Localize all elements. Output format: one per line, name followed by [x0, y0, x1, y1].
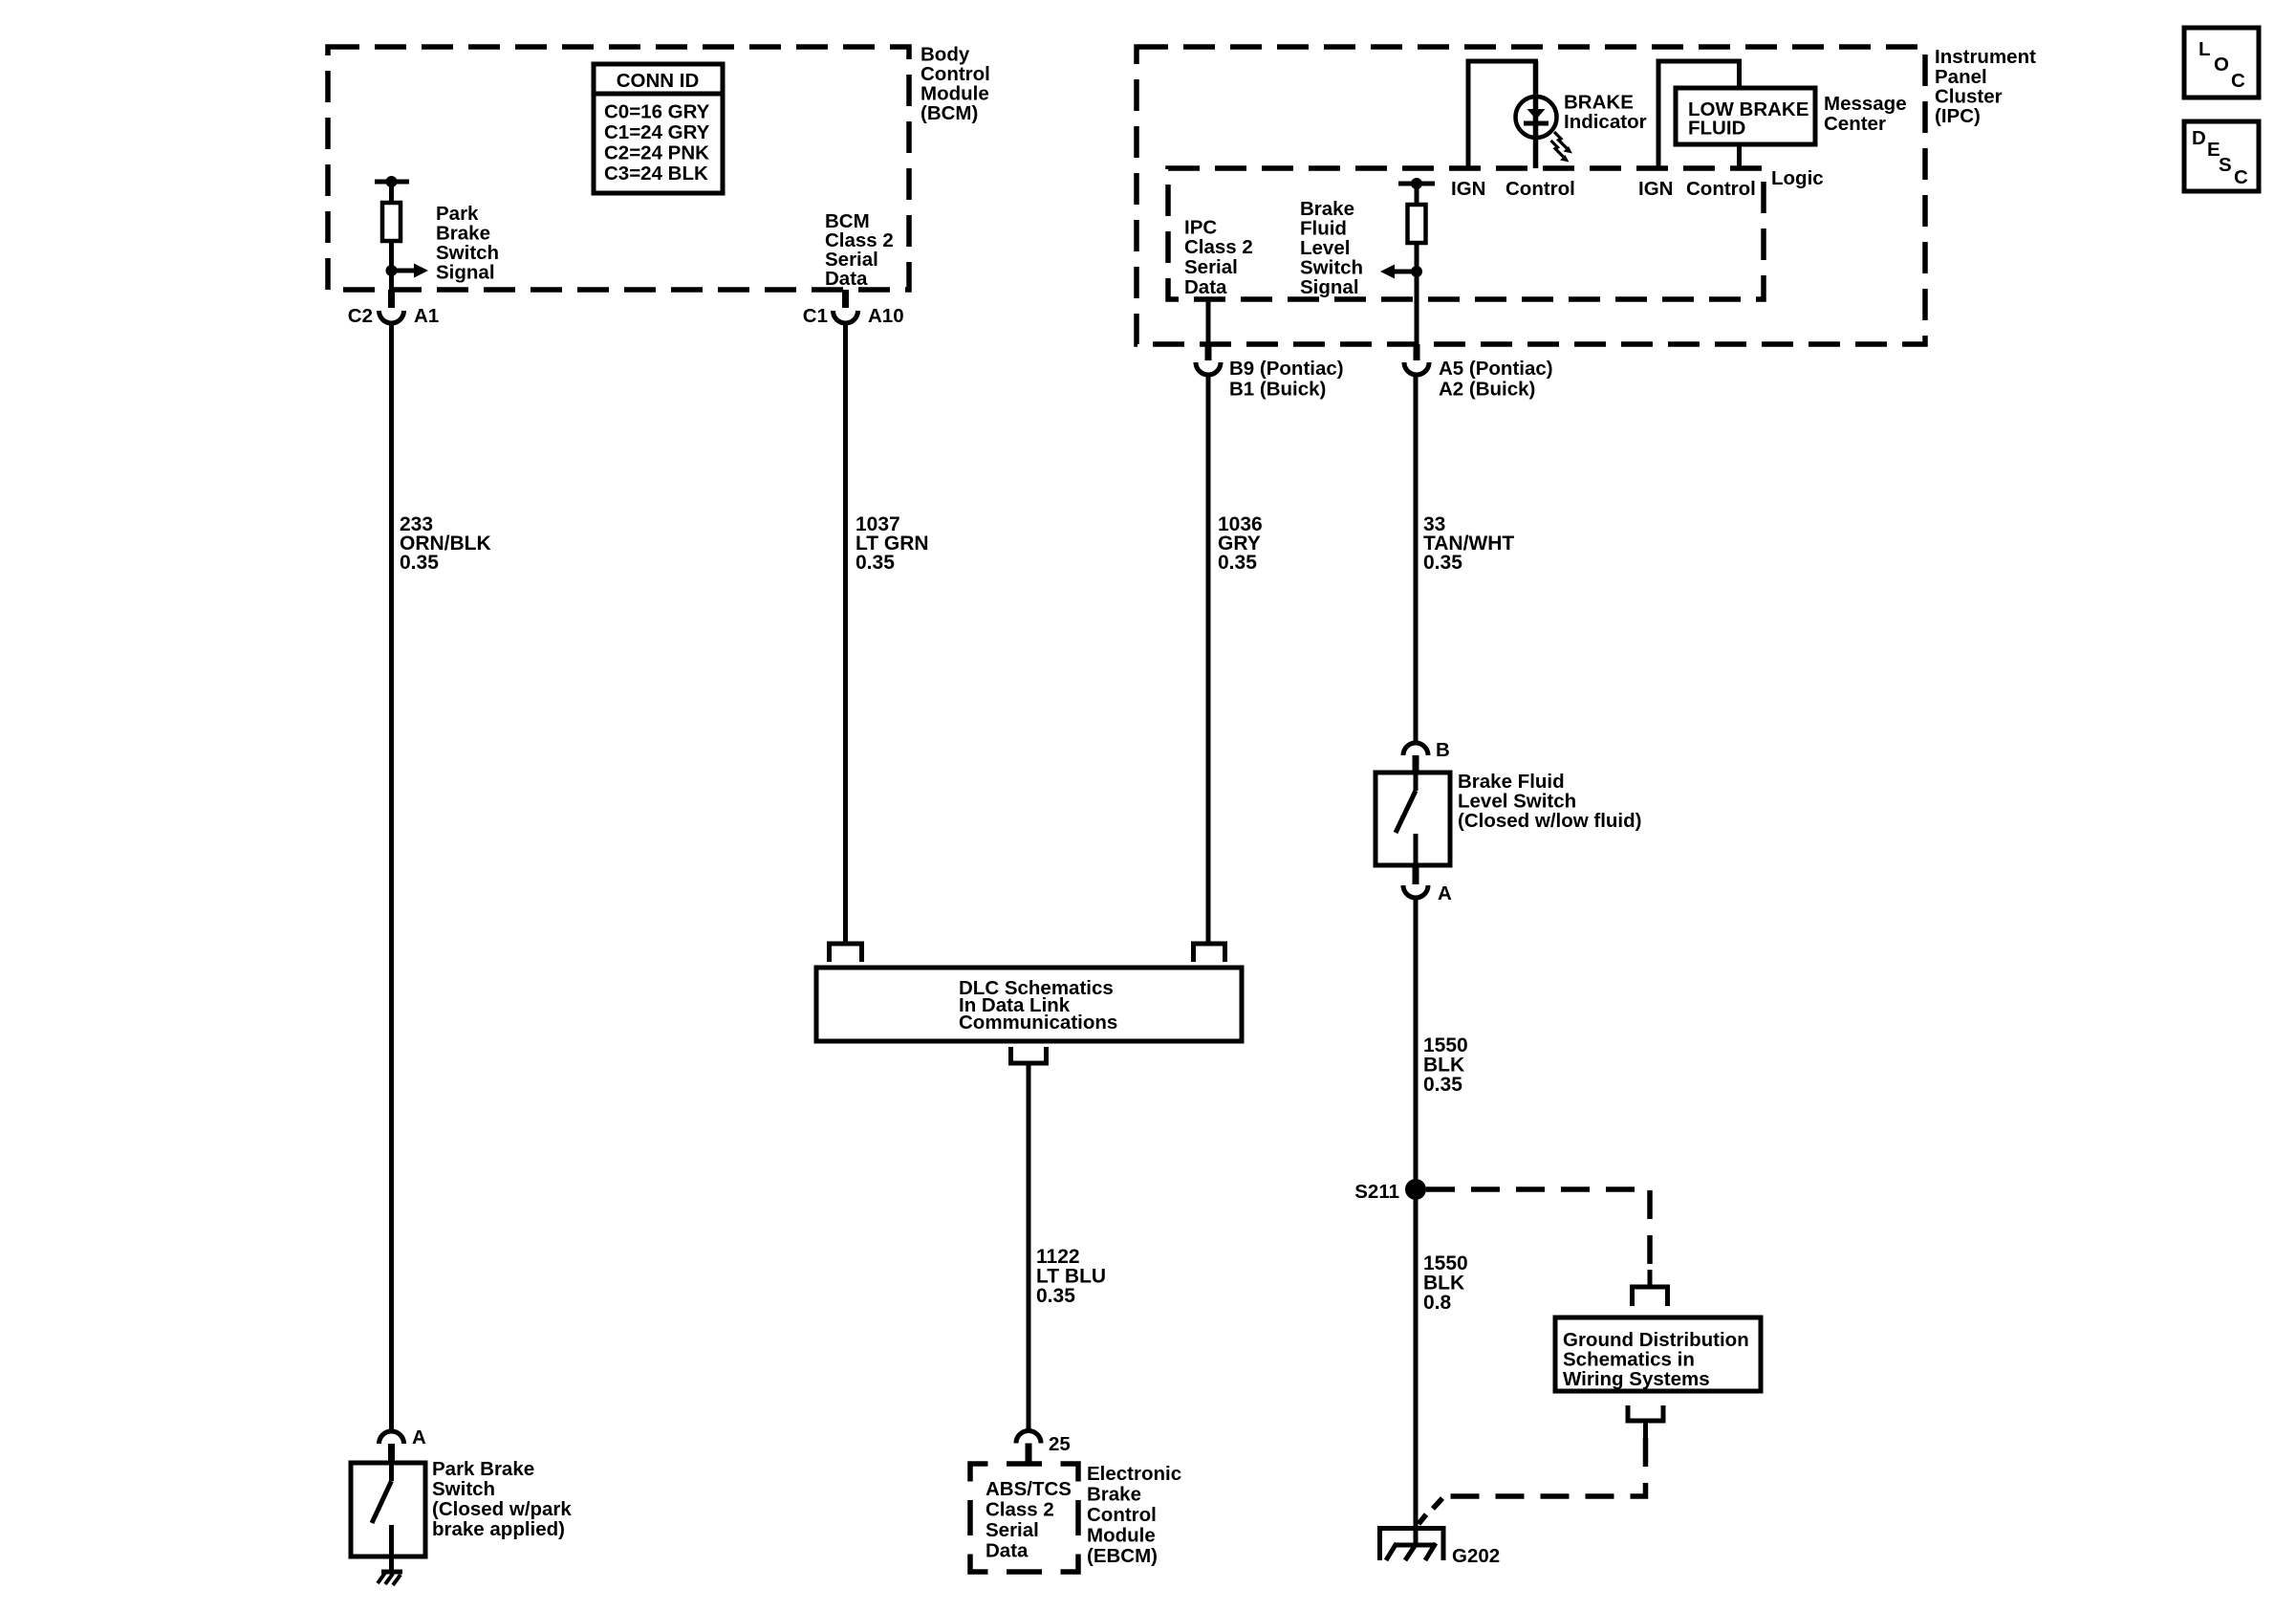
svg-text:0.35: 0.35 [856, 552, 895, 574]
park brake switch S1 box [351, 1463, 425, 1557]
svg-text:S211: S211 [1354, 1181, 1399, 1203]
svg-text:A2 (Buick): A2 (Buick) [1439, 379, 1535, 401]
svg-text:(Closed w/low fluid): (Closed w/low fluid) [1458, 810, 1641, 832]
wire IGN riser (BRAKE indicator) [1466, 61, 1471, 168]
svg-text:C: C [2231, 70, 2245, 92]
svg-text:Control: Control [1686, 178, 1756, 200]
IPC logic dashed box [1168, 168, 1764, 299]
svg-text:C3=24 BLK: C3=24 BLK [604, 163, 708, 185]
svg-text:Indicator: Indicator [1564, 111, 1647, 133]
svg-text:Signal: Signal [436, 262, 495, 284]
svg-text:C1=24 GRY: C1=24 GRY [604, 121, 710, 143]
svg-text:Class 2: Class 2 [986, 1499, 1054, 1521]
wire top bar (BRAKE indicator loop) [1466, 59, 1539, 64]
LED emission arrows [1551, 132, 1573, 163]
label Brake Fluid Level Switch (Closed w/low fluid) [1458, 771, 1641, 832]
wire control drop (BRAKE indicator) [1533, 61, 1539, 168]
connector A (park brake switch) [379, 1426, 427, 1463]
svg-text:ABS/TCS: ABS/TCS [986, 1478, 1072, 1500]
wire 1550 BLK 0.35 [1414, 898, 1419, 1545]
LOC reference box [2184, 28, 2259, 98]
wire drop to LOW BRAKE FLUID box [1737, 61, 1742, 88]
svg-text:Logic: Logic [1771, 167, 1824, 189]
svg-text:Communications: Communications [959, 1012, 1117, 1034]
resistor R (IPC pull-up) [1408, 205, 1426, 243]
arrow brake fluid level switch signal [1380, 265, 1417, 279]
svg-text:C0=16 GRY: C0=16 GRY [604, 101, 710, 123]
LOW BRAKE FLUID message box [1676, 88, 1815, 144]
connector bump bottom (DLC box) [1008, 1047, 1049, 1063]
wire supply bar to resistor [389, 182, 394, 203]
svg-text:Data: Data [1184, 276, 1227, 298]
svg-text:B9 (Pontiac): B9 (Pontiac) [1229, 358, 1344, 380]
label 33 TAN/WHT 0.35 [1423, 513, 1514, 574]
svg-text:Serial: Serial [986, 1519, 1039, 1541]
node junction park brake signal [386, 265, 398, 276]
wire 1037 LT GRN [843, 323, 848, 944]
svg-text:A5 (Pontiac): A5 (Pontiac) [1439, 358, 1553, 380]
svg-text:25: 25 [1049, 1433, 1071, 1455]
label Brake Fluid Level Switch Signal [1300, 198, 1363, 298]
wire IPC B9 to DLC [1206, 375, 1211, 944]
wire 233 ORN/BLK [389, 323, 394, 1431]
brake fluid level switch box [1375, 773, 1450, 865]
svg-text:B1 (Buick): B1 (Buick) [1229, 379, 1326, 401]
connector C2 / A1 [348, 290, 439, 327]
svg-text:Data: Data [825, 268, 868, 290]
svg-text:CONN ID: CONN ID [617, 70, 700, 92]
svg-text:Control: Control [1505, 178, 1575, 200]
svg-text:B: B [1436, 739, 1450, 761]
svg-text:brake applied): brake applied) [432, 1518, 565, 1540]
dashed branch wire S211 to ground distribution [1426, 1189, 1650, 1272]
svg-text:0.35: 0.35 [1036, 1285, 1075, 1307]
svg-text:Wiring Systems: Wiring Systems [1563, 1368, 1710, 1390]
svg-text:Park Brake: Park Brake [432, 1458, 534, 1480]
svg-text:FLUID: FLUID [1688, 118, 1745, 140]
IPC module dashed box [1137, 47, 1925, 344]
wire top bar (message center loop) [1657, 59, 1743, 64]
svg-text:Electronic: Electronic [1087, 1463, 1181, 1485]
svg-text:C2: C2 [348, 305, 373, 327]
wire 33 TAN/WHT [1414, 375, 1419, 742]
connector 25 (EBCM) [1016, 1431, 1071, 1465]
label IPC Class 2 Serial Data [1184, 217, 1253, 299]
connector bump right (DLC box top) [1191, 944, 1227, 962]
svg-text:C: C [2234, 166, 2248, 188]
connector B9/B1 (IPC serial data) [1196, 344, 1344, 401]
Ground Distribution box [1555, 1317, 1761, 1391]
svg-text:Signal: Signal [1300, 276, 1359, 298]
svg-text:(Closed w/park: (Closed w/park [432, 1498, 572, 1520]
svg-text:Instrument: Instrument [1935, 46, 2036, 68]
connector bump bottom (ground distribution) [1626, 1405, 1666, 1438]
ground G202 [1377, 1526, 1500, 1567]
ABS/TCS dashed box (EBCM) [970, 1464, 1078, 1572]
svg-text:IGN: IGN [1638, 178, 1673, 200]
svg-text:C2=24 PNK: C2=24 PNK [604, 142, 709, 164]
label BRAKE Indicator [1564, 92, 1647, 134]
svg-text:L: L [2199, 38, 2211, 60]
CONN ID table [594, 64, 723, 193]
svg-text:Data: Data [986, 1540, 1029, 1562]
label Electronic Brake Control Module (EBCM) [1087, 1463, 1181, 1567]
label 1037 LT GRN 0.35 [856, 513, 929, 574]
svg-text:0.8: 0.8 [1423, 1292, 1452, 1314]
node: park brake pull-up supply bar [375, 176, 409, 187]
svg-text:Class 2: Class 2 [1184, 236, 1253, 258]
label Body Control Module (BCM) [921, 44, 990, 125]
svg-text:Message: Message [1824, 93, 1907, 115]
svg-text:0.35: 0.35 [1423, 552, 1462, 574]
connector A5/A2 (brake fluid signal) [1404, 344, 1553, 401]
svg-text:A10: A10 [868, 305, 904, 327]
svg-text:(IPC): (IPC) [1935, 105, 1981, 127]
wire control drop (message center) [1737, 144, 1742, 169]
svg-text:A: A [412, 1426, 426, 1448]
DESC reference box [2184, 121, 2259, 191]
svg-text:Module: Module [1087, 1525, 1156, 1547]
svg-text:Control: Control [1087, 1504, 1157, 1526]
wire IPC serial data to bottom [1206, 299, 1211, 344]
node junction brake fluid signal [1411, 266, 1422, 277]
resistor R (park brake pull-up) [382, 203, 401, 241]
wire 1122 LT BLU [1027, 1063, 1031, 1430]
wire resistor to IPC bottom [1415, 243, 1419, 344]
svg-text:0.35: 0.35 [1218, 552, 1257, 574]
svg-text:Brake: Brake [1087, 1484, 1141, 1506]
DLC Schematics box [816, 968, 1242, 1041]
label 1550 BLK 0.35 [1423, 1034, 1468, 1096]
label Park Brake Switch (Closed w/park brake applied) [432, 1458, 572, 1540]
svg-text:C1: C1 [803, 305, 828, 327]
label 1036 GRY 0.35 [1218, 513, 1263, 574]
label Instrument Panel Cluster (IPC) [1935, 46, 2036, 127]
LED BRAKE indicator [1516, 96, 1557, 139]
svg-text:O: O [2214, 54, 2229, 76]
svg-text:IGN: IGN [1451, 178, 1485, 200]
arrow park brake switch signal [392, 264, 429, 278]
wire IGN riser (message center) [1657, 61, 1661, 169]
splice S211 [1354, 1179, 1426, 1203]
svg-text:(EBCM): (EBCM) [1087, 1545, 1158, 1567]
svg-text:G202: G202 [1452, 1545, 1500, 1567]
svg-text:D: D [2192, 127, 2206, 149]
connector A (brake fluid level switch) [1403, 865, 1452, 904]
label 1550 BLK 0.8 [1423, 1252, 1468, 1314]
connector C1 / A10 [803, 290, 904, 327]
svg-text:A: A [1438, 882, 1452, 904]
label Park Brake Switch Signal [436, 203, 499, 284]
svg-text:(BCM): (BCM) [921, 102, 978, 124]
svg-text:Serial: Serial [1184, 256, 1238, 278]
wire resistor to BCM bottom [389, 241, 394, 290]
svg-text:0.35: 0.35 [400, 552, 439, 574]
node: IPC pull-up supply bar [1398, 178, 1435, 189]
svg-text:Center: Center [1824, 113, 1886, 135]
dashed wire ground distribution to G202 [1419, 1438, 1646, 1524]
svg-text:Switch: Switch [432, 1478, 495, 1500]
chassis ground (park brake switch) [378, 1557, 402, 1585]
label 1122 LT BLU 0.35 [1036, 1246, 1106, 1307]
BCM module dashed box [328, 47, 909, 290]
label Message Center [1824, 93, 1907, 135]
svg-text:S: S [2219, 154, 2232, 176]
label 233 ORN/BLK 0.35 [400, 513, 491, 574]
connector bump top (ground distribution) [1630, 1270, 1670, 1306]
svg-text:A1: A1 [414, 305, 439, 327]
connector bump left (DLC box top) [827, 944, 864, 962]
label BCM Class 2 Serial Data [825, 210, 894, 290]
wire supply to resistor (IPC) [1415, 184, 1419, 205]
connector B (brake fluid level switch) [1403, 739, 1450, 773]
svg-text:0.35: 0.35 [1423, 1074, 1462, 1096]
